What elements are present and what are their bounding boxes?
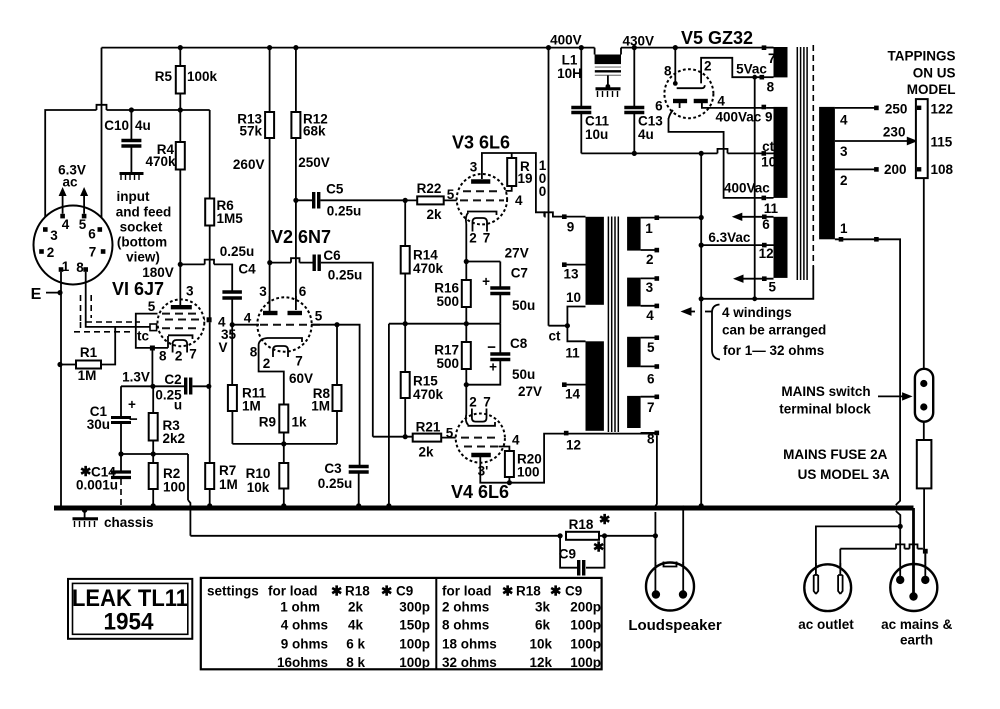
svg-text:R7: R7 xyxy=(219,463,236,478)
svg-text:0.25u: 0.25u xyxy=(328,268,363,283)
6.3V tap 5 with arrow xyxy=(733,275,777,295)
svg-text:+: + xyxy=(482,274,490,289)
output transformer secondary block 3-4 xyxy=(627,276,659,323)
resistor R17 xyxy=(434,324,471,385)
V5 pin 2 wire to 5Vac tap 8 xyxy=(701,58,761,84)
label 1.3V xyxy=(122,370,150,385)
svg-text:u: u xyxy=(174,398,182,413)
svg-text:ct: ct xyxy=(762,139,775,154)
V1 pin 4 node (screen) xyxy=(207,315,237,356)
output transformer secondary block 7-8 xyxy=(627,395,659,447)
svg-text:5: 5 xyxy=(647,340,655,355)
svg-text:180V: 180V xyxy=(142,265,174,280)
resistor R11 xyxy=(228,325,267,444)
svg-text:430V: 430V xyxy=(623,34,655,49)
chassis bus (thick) xyxy=(54,506,914,511)
svg-text:ac outlet: ac outlet xyxy=(798,617,854,632)
LEAK TL11 1954 box xyxy=(68,579,192,639)
output transformer tap 12 xyxy=(564,431,581,453)
mains transformer primary block xyxy=(819,107,848,239)
V2 grid pin 4 wire from C4/R11 node xyxy=(232,311,259,326)
svg-text:100k: 100k xyxy=(187,69,218,84)
capacitor C13 xyxy=(624,45,663,153)
svg-text:3: 3 xyxy=(840,144,848,159)
tube V5 circle xyxy=(664,69,713,118)
svg-text:3: 3 xyxy=(259,284,267,299)
capacitor C4 xyxy=(178,244,256,327)
shielded grid cable from pin 8 (solid core) xyxy=(86,272,150,327)
svg-text:1: 1 xyxy=(62,259,70,274)
svg-text:8: 8 xyxy=(159,349,167,364)
svg-text:4: 4 xyxy=(512,433,520,448)
resistor R5 xyxy=(155,45,218,110)
V3 grid dashed rows xyxy=(460,191,504,200)
svg-text:100: 100 xyxy=(517,465,540,480)
V1 grid dashed rows xyxy=(162,314,205,329)
svg-text:4: 4 xyxy=(646,308,654,323)
svg-text:R18: R18 xyxy=(516,583,541,598)
svg-text:68k: 68k xyxy=(303,124,326,139)
svg-text:C7: C7 xyxy=(511,266,528,281)
svg-text:10: 10 xyxy=(566,290,581,305)
resistor R18 xyxy=(566,512,655,540)
resistor R20 (screen strap) xyxy=(499,433,542,486)
V3 cathode node 27V xyxy=(464,224,529,264)
svg-text:C9: C9 xyxy=(559,547,576,562)
capacitor C9 xyxy=(559,536,605,576)
svg-text:2 ohms: 2 ohms xyxy=(442,599,489,614)
svg-text:7: 7 xyxy=(295,354,303,369)
label V3 6L6 xyxy=(452,133,510,153)
svg-text:8 ohms: 8 ohms xyxy=(442,618,489,633)
svg-text:2: 2 xyxy=(646,252,654,267)
svg-text:1: 1 xyxy=(645,221,653,236)
svg-text:400Vac 9: 400Vac 9 xyxy=(715,110,772,125)
svg-text:4k: 4k xyxy=(348,618,364,633)
wire left HT drop to socket pin 6 xyxy=(101,48,103,226)
svg-text:1 ohm: 1 ohm xyxy=(280,599,320,614)
svg-text:3: 3 xyxy=(50,228,58,243)
resistor R7 xyxy=(205,386,238,508)
svg-text:9 ohms: 9 ohms xyxy=(281,636,328,651)
note text 4 windings xyxy=(722,305,826,358)
6.3V tap 6 with arrow xyxy=(732,213,774,232)
feedback tap from node line xyxy=(188,454,190,536)
svg-text:C10: C10 xyxy=(104,118,129,133)
svg-text:C2: C2 xyxy=(164,372,181,387)
svg-text:for 1— 32 ohms: for 1— 32 ohms xyxy=(723,343,824,358)
svg-text:C5: C5 xyxy=(326,182,344,197)
screen earth wire xyxy=(699,153,814,508)
svg-text:3': 3' xyxy=(478,464,489,479)
resistor R3 xyxy=(149,386,185,454)
note arrow xyxy=(681,307,696,316)
5Vac return line down xyxy=(754,77,756,299)
V2 cathode wire to R9 xyxy=(259,345,313,405)
capacitor C10 xyxy=(104,107,151,172)
svg-text:400Vac: 400Vac xyxy=(724,181,770,196)
output transformer secondary block 5-6 xyxy=(627,335,659,386)
svg-text:470k: 470k xyxy=(413,261,444,276)
svg-text:(bottom: (bottom xyxy=(117,235,167,250)
wire grid bus from socket pin3 to R6 xyxy=(45,105,210,226)
svg-text:500: 500 xyxy=(436,294,459,309)
svg-text:can be arranged: can be arranged xyxy=(722,323,826,338)
feedback line xyxy=(190,533,562,538)
svg-text:2: 2 xyxy=(175,349,183,364)
HT ct return wire to mains transformer tap 10 xyxy=(581,139,776,170)
V3 top wire plate to tap 9 xyxy=(482,153,544,217)
settings table xyxy=(201,578,602,669)
svg-text:socket: socket xyxy=(120,220,163,235)
svg-text:12: 12 xyxy=(759,246,774,261)
capacitor C3 xyxy=(318,461,369,508)
svg-text:MODEL: MODEL xyxy=(907,82,956,97)
svg-text:8: 8 xyxy=(664,64,672,79)
svg-text:27V: 27V xyxy=(518,384,542,399)
node line above R2 xyxy=(118,451,188,456)
svg-text:ct: ct xyxy=(548,329,561,344)
svg-text:300p: 300p xyxy=(399,599,430,614)
svg-text:C9: C9 xyxy=(396,583,413,598)
svg-text:4u: 4u xyxy=(135,118,151,133)
label V4 6L6 xyxy=(451,482,509,502)
V4 plate line to tap 12 xyxy=(509,434,564,483)
label MAINS switch terminal block with arrow xyxy=(779,384,912,417)
svg-text:12: 12 xyxy=(566,438,581,453)
capacitor C8 xyxy=(466,324,542,399)
V2 pin 5 wire to R8 and C3 xyxy=(311,309,360,467)
svg-text:150p: 150p xyxy=(399,618,430,633)
cable shield (dashed) xyxy=(74,295,140,332)
svg-text:19: 19 xyxy=(518,171,533,186)
settings table text xyxy=(207,583,601,670)
svg-text:250: 250 xyxy=(885,102,908,117)
svg-text:R22: R22 xyxy=(417,181,442,196)
V1 grid cap tc xyxy=(137,324,157,344)
svg-text:R18: R18 xyxy=(345,583,370,598)
primary tap 200 xyxy=(835,162,907,177)
svg-text:Loudspeaker: Loudspeaker xyxy=(628,617,722,634)
strip to switch wire xyxy=(923,178,925,369)
svg-text:ac mains &: ac mains & xyxy=(881,617,953,632)
resistor R2 xyxy=(149,454,186,508)
output transformer secondary block 1-2 xyxy=(627,215,659,267)
svg-text:1M: 1M xyxy=(311,399,330,414)
svg-text:1M: 1M xyxy=(242,399,261,414)
svg-text:✱: ✱ xyxy=(502,583,514,598)
primary tap 230 with arrow into strip xyxy=(835,125,921,146)
svg-text:C4: C4 xyxy=(238,262,256,277)
svg-text:5: 5 xyxy=(148,299,156,314)
svg-text:7: 7 xyxy=(89,245,97,260)
capacitor C1 xyxy=(87,386,138,454)
svg-text:115: 115 xyxy=(931,135,953,150)
svg-text:3k: 3k xyxy=(535,599,551,614)
svg-text:2: 2 xyxy=(469,395,477,410)
svg-text:50u: 50u xyxy=(512,367,535,382)
label MAINS FUSE / US MODEL xyxy=(783,447,890,482)
svg-text:VI 6J7: VI 6J7 xyxy=(112,279,164,299)
capacitor C6 and line to V4 grid path xyxy=(267,248,373,437)
svg-text:200p: 200p xyxy=(570,599,601,614)
primary tap 250 xyxy=(835,102,907,117)
svg-text:input: input xyxy=(117,189,150,204)
svg-text:0: 0 xyxy=(539,184,547,199)
svg-text:230: 230 xyxy=(883,125,906,140)
svg-text:1M: 1M xyxy=(78,368,97,383)
loudspeaker connector xyxy=(628,562,722,635)
ground reference bus mid (y 323.7) xyxy=(386,324,500,509)
V2 grid dashed row xyxy=(260,324,320,326)
svg-text:4: 4 xyxy=(717,94,725,109)
svg-text:R10: R10 xyxy=(246,466,271,481)
label V5 GZ32 xyxy=(681,28,753,48)
svg-text:10u: 10u xyxy=(585,127,608,142)
cathode node line C1 C2 xyxy=(121,384,184,389)
svg-text:16ohms: 16ohms xyxy=(277,655,328,670)
tube V3 circle xyxy=(457,174,507,224)
svg-text:5: 5 xyxy=(447,187,455,202)
svg-text:14: 14 xyxy=(565,387,581,402)
svg-text:✱: ✱ xyxy=(599,512,611,527)
V5 pin 6 wire to 400Vac tap 11 xyxy=(669,103,779,216)
svg-text:✱: ✱ xyxy=(331,583,343,598)
socket pin squares xyxy=(39,214,105,272)
svg-text:108: 108 xyxy=(931,162,954,177)
svg-text:7: 7 xyxy=(647,400,655,415)
label 430V xyxy=(623,34,655,49)
svg-text:260V: 260V xyxy=(233,157,265,172)
svg-text:7: 7 xyxy=(483,231,491,246)
V1 suppressor pin5 box to cathode xyxy=(136,299,168,351)
output transformer ct taps 10 and 11 xyxy=(565,290,585,361)
svg-text:4: 4 xyxy=(840,113,848,128)
svg-text:6: 6 xyxy=(762,217,770,232)
resistor R22 xyxy=(405,181,457,222)
svg-text:2: 2 xyxy=(840,173,848,188)
ac mains and earth connector xyxy=(881,508,953,648)
svg-text:8: 8 xyxy=(647,432,655,447)
svg-text:0.001u: 0.001u xyxy=(76,478,118,493)
svg-text:5: 5 xyxy=(769,280,777,295)
resistor R21 xyxy=(373,420,456,460)
svg-text:100p: 100p xyxy=(399,636,430,651)
svg-text:100: 100 xyxy=(163,480,186,495)
V2 plate bars pins 3 and 6 xyxy=(259,284,307,313)
label 180V xyxy=(142,265,174,280)
chassis ground symbol xyxy=(73,507,154,530)
svg-text:R9: R9 xyxy=(259,415,276,430)
svg-text:4 ohms: 4 ohms xyxy=(281,618,328,633)
V1 cathode and heater xyxy=(159,335,197,363)
svg-text:8 k: 8 k xyxy=(346,655,365,670)
svg-text:MAINS switch: MAINS switch xyxy=(781,384,870,399)
V5 pin 4 wire to 400Vac tap 9 xyxy=(702,103,773,125)
svg-text:TAPPINGS: TAPPINGS xyxy=(887,49,955,64)
V5 pin 8 wire and filament xyxy=(664,45,705,88)
output transformer core lines xyxy=(608,217,618,433)
label 250V xyxy=(298,155,330,170)
output transformer tap 13 xyxy=(562,262,586,281)
svg-text:5: 5 xyxy=(446,426,454,441)
svg-text:3: 3 xyxy=(186,284,194,299)
svg-text:view): view) xyxy=(126,250,160,265)
svg-text:4: 4 xyxy=(62,217,70,232)
svg-text:earth: earth xyxy=(900,633,933,648)
svg-text:V2 6N7: V2 6N7 xyxy=(271,227,331,247)
svg-text:2k: 2k xyxy=(426,207,442,222)
svg-text:−: − xyxy=(487,339,496,356)
resistor R6 xyxy=(205,110,243,386)
svg-text:0.25u: 0.25u xyxy=(327,204,362,219)
svg-text:✱: ✱ xyxy=(550,583,562,598)
svg-text:R21: R21 xyxy=(416,420,441,435)
output transformer tap 14 xyxy=(562,382,586,401)
svg-text:5: 5 xyxy=(315,309,323,324)
svg-text:4: 4 xyxy=(244,311,252,326)
svg-text:1k: 1k xyxy=(292,415,308,430)
svg-text:50u: 50u xyxy=(512,298,535,313)
capacitor C2 xyxy=(155,372,211,413)
svg-text:57k: 57k xyxy=(239,124,262,139)
resistor R4 xyxy=(145,107,184,264)
resistor R19 (plate to screen, triode strap) xyxy=(506,153,547,208)
svg-text:18 ohms: 18 ohms xyxy=(442,636,497,651)
svg-text:1M5: 1M5 xyxy=(217,211,244,226)
V1 plate bar and pin 3 xyxy=(171,264,194,307)
svg-text:100p: 100p xyxy=(570,636,601,651)
wire top HT bus 400V side xyxy=(102,47,774,49)
svg-text:6 k: 6 k xyxy=(346,636,365,651)
svg-text:500: 500 xyxy=(436,356,459,371)
svg-text:0.25u: 0.25u xyxy=(318,476,353,491)
resistor R12 xyxy=(291,45,327,309)
svg-text:11: 11 xyxy=(565,346,580,361)
svg-text:C9: C9 xyxy=(565,583,582,598)
mains transformer HV winding block xyxy=(766,107,787,198)
svg-text:470k: 470k xyxy=(413,387,444,402)
svg-text:US MODEL 3A: US MODEL 3A xyxy=(798,467,890,482)
V4 plate bar and lead xyxy=(471,455,509,483)
svg-text:✱: ✱ xyxy=(381,583,393,598)
mains transformer screen (dashed) xyxy=(812,45,814,266)
svg-text:30u: 30u xyxy=(87,417,110,432)
svg-text:11: 11 xyxy=(764,201,779,216)
svg-text:3: 3 xyxy=(470,160,478,175)
tube V4 circle xyxy=(456,414,505,463)
svg-text:C3: C3 xyxy=(324,461,342,476)
svg-text:4: 4 xyxy=(515,193,523,208)
svg-text:settings: settings xyxy=(207,583,259,598)
svg-text:4u: 4u xyxy=(638,127,654,142)
tube V1 6J7 circle xyxy=(158,299,205,346)
V4 grid dashed rows xyxy=(461,438,502,447)
svg-text:12k: 12k xyxy=(529,655,552,670)
svg-text:2: 2 xyxy=(704,59,712,74)
svg-text:122: 122 xyxy=(931,102,954,117)
svg-text:250V: 250V xyxy=(298,155,330,170)
svg-text:MAINS FUSE 2A: MAINS FUSE 2A xyxy=(783,447,888,462)
label V2 6N7 xyxy=(271,227,331,247)
ground below L1 xyxy=(596,75,621,97)
label TAPPINGS ON US MODEL xyxy=(887,49,955,98)
svg-text:2: 2 xyxy=(469,231,477,246)
svg-text:7: 7 xyxy=(768,51,776,66)
svg-text:R5: R5 xyxy=(155,69,173,84)
V4 cathode and heater (inverted) xyxy=(466,395,495,426)
resistor R1 xyxy=(57,327,115,383)
note 4 windings bracket xyxy=(705,305,720,360)
choke L1 on HT bus xyxy=(557,48,621,81)
svg-text:✱: ✱ xyxy=(593,540,605,555)
svg-text:1954: 1954 xyxy=(104,609,155,636)
label 260V xyxy=(233,157,265,172)
svg-text:32 ohms: 32 ohms xyxy=(442,655,497,670)
svg-text:7: 7 xyxy=(483,395,491,410)
label input and feed socket xyxy=(116,189,172,265)
svg-text:27V: 27V xyxy=(505,246,529,261)
V1 cathode line down to C2 node xyxy=(151,351,153,387)
capacitor C5 and coupling line to R22 xyxy=(293,182,405,219)
bias node bus under V2 xyxy=(232,441,337,446)
svg-text:100p: 100p xyxy=(570,618,601,633)
label 6.3V ac xyxy=(58,163,86,190)
socket pin numbers xyxy=(47,217,97,275)
svg-text:10H: 10H xyxy=(557,66,582,81)
svg-text:13: 13 xyxy=(563,267,579,282)
svg-text:100p: 100p xyxy=(399,655,430,670)
svg-text:2k: 2k xyxy=(348,599,364,614)
svg-text:5: 5 xyxy=(79,217,87,232)
resistor R15 xyxy=(401,324,444,440)
svg-text:6.3Vac: 6.3Vac xyxy=(708,230,751,245)
svg-text:−: − xyxy=(129,411,138,428)
heater line tap1 to mains junction xyxy=(659,215,704,220)
ground below C10 xyxy=(120,174,144,181)
svg-text:400V: 400V xyxy=(550,33,582,48)
V3 cathode and heater xyxy=(466,212,497,246)
loudspeaker feed from tap 8 xyxy=(653,435,658,593)
svg-text:2k2: 2k2 xyxy=(163,431,186,446)
heater arrows from pins 4 and 5 xyxy=(59,187,89,214)
mains transformer 5V winding block xyxy=(736,45,787,94)
svg-text:C8: C8 xyxy=(510,336,528,351)
capacitor C7 xyxy=(482,262,535,324)
svg-text:R1: R1 xyxy=(80,345,98,360)
svg-text:1M: 1M xyxy=(219,477,238,492)
svg-text:terminal block: terminal block xyxy=(779,402,871,417)
node E and pin1 line xyxy=(31,272,63,506)
svg-text:8: 8 xyxy=(767,80,775,95)
primary tap 1 line xyxy=(835,237,900,524)
svg-text:1.3V: 1.3V xyxy=(122,370,150,385)
svg-text:10k: 10k xyxy=(247,480,270,495)
svg-text:8: 8 xyxy=(76,260,84,275)
svg-text:ac: ac xyxy=(62,175,78,190)
MAINS switch terminal block oval xyxy=(915,369,933,422)
svg-text:chassis: chassis xyxy=(104,515,154,530)
capacitor C11 xyxy=(571,45,609,153)
svg-text:E: E xyxy=(31,286,42,303)
resistor R13 xyxy=(237,45,274,311)
6.3V tap 12 xyxy=(699,230,774,261)
svg-text:+: + xyxy=(128,397,136,412)
svg-text:6: 6 xyxy=(655,99,663,114)
svg-text:V: V xyxy=(219,340,228,355)
svg-text:V3 6L6: V3 6L6 xyxy=(452,133,510,153)
svg-text:8: 8 xyxy=(250,345,258,360)
